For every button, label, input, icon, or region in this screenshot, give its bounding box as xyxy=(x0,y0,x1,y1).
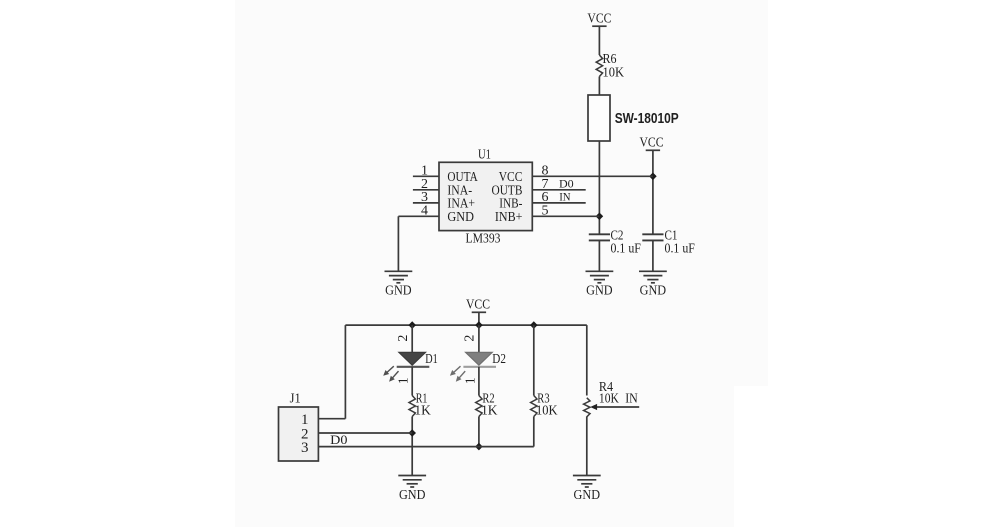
svg-text:D0: D0 xyxy=(559,178,574,190)
svg-text:GND: GND xyxy=(447,210,474,225)
svg-text:GND: GND xyxy=(385,284,412,299)
svg-text:3: 3 xyxy=(301,440,309,456)
svg-text:D2: D2 xyxy=(492,352,506,367)
svg-text:VCC: VCC xyxy=(640,136,664,151)
svg-text:IN: IN xyxy=(559,192,571,204)
svg-text:SW-18010P: SW-18010P xyxy=(615,111,679,127)
svg-text:VCC: VCC xyxy=(466,298,490,313)
svg-text:10K: 10K xyxy=(599,392,619,407)
svg-text:1K: 1K xyxy=(414,404,430,419)
svg-text:GND: GND xyxy=(399,488,426,503)
svg-text:1: 1 xyxy=(463,377,478,384)
svg-text:5: 5 xyxy=(542,203,549,218)
svg-text:GND: GND xyxy=(586,284,613,299)
svg-text:GND: GND xyxy=(574,488,601,503)
svg-text:D1: D1 xyxy=(425,352,438,367)
svg-text:INB+: INB+ xyxy=(495,210,523,225)
svg-text:1K: 1K xyxy=(481,404,497,419)
svg-text:2: 2 xyxy=(463,335,478,342)
svg-text:U1: U1 xyxy=(478,148,491,163)
svg-text:VCC: VCC xyxy=(587,12,611,27)
svg-text:2: 2 xyxy=(396,335,411,342)
svg-text:1: 1 xyxy=(397,377,412,384)
svg-text:0.1 uF: 0.1 uF xyxy=(665,242,696,257)
svg-text:D0: D0 xyxy=(330,433,347,447)
svg-text:IN: IN xyxy=(625,392,638,407)
svg-text:10K: 10K xyxy=(536,404,558,419)
svg-text:J1: J1 xyxy=(290,391,301,406)
svg-text:10K: 10K xyxy=(603,66,625,81)
svg-text:LM393: LM393 xyxy=(466,231,501,246)
svg-text:GND: GND xyxy=(640,284,667,299)
svg-text:0.1 uF: 0.1 uF xyxy=(611,242,642,257)
